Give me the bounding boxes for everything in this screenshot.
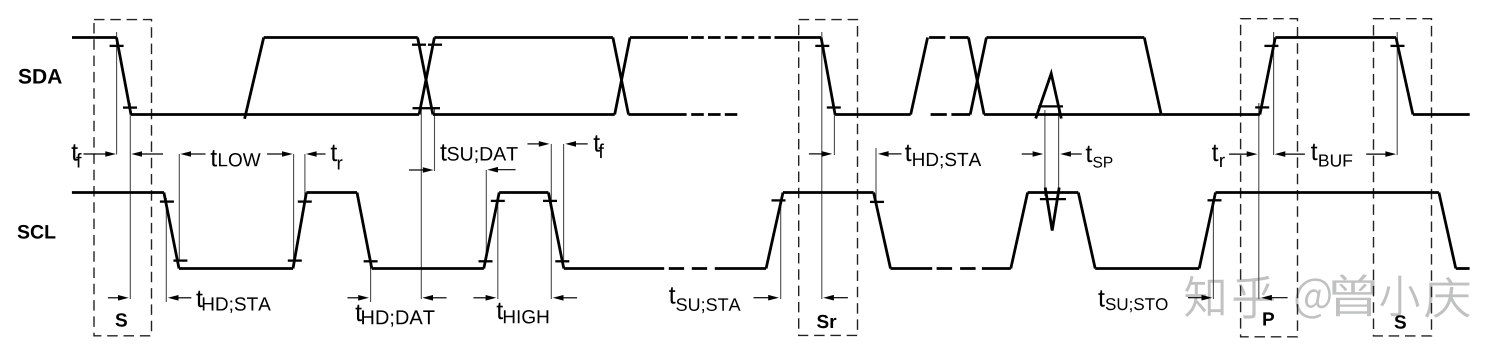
dimension tSU;DAT right arrow	[487, 167, 515, 173]
tick SCL rise1 top	[298, 200, 312, 202]
label tBUF	[1311, 144, 1352, 167]
tick SDA S2 fall top	[1391, 45, 1405, 47]
label S1	[116, 313, 127, 327]
dimension tHD;STA1 left arrow	[108, 295, 129, 301]
tick SDA Sr fall top	[815, 45, 829, 47]
label tHD;STA1	[196, 291, 270, 313]
dimension tf2 left arrow	[527, 141, 549, 147]
label tr1	[331, 145, 343, 170]
dimension tHIGH right arrow	[553, 295, 577, 301]
wire SCL low 4 resume	[982, 267, 1011, 270]
dimension tr2 arrow	[1229, 151, 1257, 157]
wire SDA low rail 2	[433, 113, 615, 116]
dimension tSU;DAT left arrow	[409, 167, 434, 173]
dimension tSP right arrow	[1060, 151, 1082, 157]
dimension tr1 arrow	[306, 151, 326, 157]
repeated start box Sr	[799, 20, 858, 336]
wire SCL high 1	[306, 191, 357, 194]
dimension tSU;STA right arrow	[823, 295, 848, 301]
dimension tHD;DAT left arrow	[348, 295, 369, 301]
label tf1	[72, 144, 82, 167]
dimension tLOW left arrow	[180, 151, 205, 157]
wire SCL fall 1	[164, 193, 179, 269]
tick SDA P rise bottom	[1255, 106, 1269, 108]
tick SDA spike	[1038, 105, 1063, 107]
wire SDA merge fall	[1144, 38, 1161, 115]
tick SCL fall2 bottom	[364, 260, 378, 262]
dimension tHD;STA2 left arrow	[809, 151, 832, 157]
wire SCL fall 3	[548, 193, 563, 269]
projection line tLOW right	[293, 154, 295, 261]
label S2	[1395, 315, 1406, 329]
wire SCL low 5	[1095, 267, 1199, 270]
label tLOW	[211, 150, 261, 166]
wire SDA high stub before crossover3	[966, 36, 969, 39]
label tSU;DAT	[440, 144, 517, 163]
wire SCL high 3	[783, 191, 874, 194]
wire SDA crossover2 rise	[615, 38, 630, 115]
wire SCL low 4 solid	[891, 267, 933, 270]
projection line tHD;DAT right	[420, 108, 422, 299]
tick SCL rise3 top	[772, 199, 786, 201]
watermark glyph at	[1296, 278, 1331, 318]
projection line tSU;STO left	[1212, 200, 1214, 299]
dimension tSU;STA left arrow	[754, 295, 779, 301]
tick SDA crossover1 bottom left	[413, 107, 427, 109]
wire SCL low 3 resume	[715, 267, 766, 270]
projection line tf1 left	[116, 32, 118, 155]
wire SCL low 3 dashes	[669, 267, 707, 270]
wire SCL low 1	[179, 267, 293, 270]
wire SCL high 4	[1028, 191, 1079, 194]
label tSP	[1086, 146, 1113, 168]
wire SDA low solid after crossover2	[629, 113, 687, 116]
wire SDA high rail 2	[434, 36, 613, 39]
projection line tr2 right / tBUF left	[1273, 32, 1275, 155]
label tf2	[594, 135, 604, 158]
dimension tHD;STA2 right arrow	[878, 151, 902, 157]
wire SCL low 3 solid	[564, 267, 664, 270]
wire SDA high P to S2	[1275, 36, 1396, 39]
projection line tHD;DAT left	[370, 261, 372, 302]
projection line tSU;DAT right	[485, 170, 487, 262]
projection line tr1 right	[304, 154, 306, 202]
tick SCL fall1 top	[160, 200, 174, 202]
watermark 知乎@曾小庆	[1185, 274, 1470, 318]
wire SDA low dashes after crossover2	[691, 113, 737, 116]
tick SCL fall4 top	[870, 201, 884, 203]
dimension tSP left arrow	[1022, 151, 1044, 157]
wire SCL rise 3	[766, 193, 783, 269]
wire SCL rise 4	[1011, 193, 1028, 269]
tick SCL fall3 bottom	[555, 260, 569, 262]
wire SDA P rise	[1260, 38, 1275, 115]
watermark glyph zhi	[1185, 276, 1224, 317]
tick SCL rise2 bottom	[479, 260, 493, 262]
wire SDA S2 fall	[1396, 38, 1413, 115]
projection line tSP right	[1058, 110, 1060, 196]
wire SDA low before P	[1161, 113, 1260, 116]
wire SDA rise 1	[245, 38, 264, 119]
wire SDA low stub before crossover3	[966, 113, 970, 116]
label tSU;STA	[669, 287, 741, 313]
tick SCL fall1 bottom	[173, 259, 187, 261]
spike on SDA	[1036, 74, 1062, 119]
wire SDA leading high	[72, 36, 117, 39]
wire SDA Sr fall	[821, 38, 835, 115]
wire SCL low 2	[372, 267, 484, 270]
projection line tSP left	[1044, 110, 1046, 196]
tick SDA crossover1 top right	[428, 44, 442, 46]
projection line tf2 right	[563, 144, 565, 262]
wire SDA high before Sr	[775, 36, 822, 39]
wire SCL high 5	[1216, 191, 1439, 194]
label SDA	[19, 69, 62, 84]
wire SCL fall 2	[357, 193, 372, 269]
label tSU;STO	[1098, 290, 1167, 312]
wire SCL leading high	[72, 191, 164, 194]
dimension tf1 right arrow	[131, 151, 163, 157]
watermark glyph zeng	[1332, 274, 1374, 316]
tick SDA start fall top	[110, 45, 124, 47]
wire SDA crossover3 rise	[970, 38, 986, 115]
projection line tSU;DAT left	[434, 108, 436, 171]
label tr2	[1212, 145, 1225, 167]
wire SDA crossover1 rise	[419, 38, 434, 115]
tick SCL rise5 top	[1208, 199, 1222, 201]
wire SDA trailing low	[1413, 113, 1470, 116]
wire SCL fall 6	[1439, 193, 1456, 269]
stop box P	[1241, 19, 1298, 337]
wire SCL rise 1	[293, 193, 306, 269]
wire SDA high rail 1	[264, 36, 418, 39]
projection line tf1 right / tHD;STA1 left	[129, 103, 131, 299]
label Sr	[817, 315, 836, 329]
projection line tHIGH left	[497, 201, 499, 299]
dimension tHIGH left arrow	[473, 295, 496, 301]
label P	[1263, 312, 1274, 325]
dimension tHD;DAT right arrow	[422, 295, 446, 301]
watermark glyph hu	[1234, 276, 1274, 319]
wire SDA low rail 1	[131, 113, 419, 116]
wire SCL fall 4	[874, 193, 891, 269]
wire SDA rise before crossover3	[911, 38, 928, 115]
wire SDA low dashes before crossover3	[931, 113, 966, 116]
wire SCL rise 2	[484, 193, 499, 269]
projection line tLOW left	[178, 154, 180, 261]
projection line tHD;STA2 right	[875, 148, 877, 202]
dimension tBUF left arrow	[1275, 151, 1305, 157]
wire SDA low after Sr	[835, 113, 911, 116]
wire SDA crossover2 fall	[613, 38, 629, 115]
dimension tSU;STO left arrow	[1188, 295, 1212, 301]
projection line tSU;STA left	[780, 200, 782, 299]
wire SDA high solid then dashed	[630, 36, 688, 39]
wire SCL rise 5	[1199, 193, 1215, 269]
projection line tBUF right	[1396, 32, 1398, 155]
start box S2	[1374, 19, 1432, 336]
tick SDA crossover1 bottom right	[426, 107, 440, 109]
watermark glyph xiao	[1380, 276, 1419, 317]
tick SCL fall3 top	[543, 200, 557, 202]
projection line tSU;STO right / tr2 left	[1258, 103, 1260, 299]
wire SCL low 4 dashes	[937, 267, 976, 270]
watermark glyph qing	[1425, 277, 1470, 318]
label tHIGH	[497, 303, 549, 324]
tick SDA start fall bottom	[123, 106, 137, 108]
dimension tf1 left arrow	[84, 151, 117, 157]
wire SDA high dashes	[691, 36, 771, 39]
wire SDA low rail 3	[984, 113, 1161, 116]
dimension tHD;STA1 right arrow	[168, 295, 192, 301]
tick SDA crossover1 top left	[412, 44, 426, 46]
dimension tBUF right arrow	[1366, 151, 1396, 157]
tick SCL rise1 bottom	[288, 259, 302, 261]
dimension tSU;STO right arrow	[1261, 295, 1287, 301]
tick SCL notch	[1040, 198, 1066, 200]
projection line tSU;STA right	[821, 32, 823, 299]
wire SDA crossover3 fall	[969, 38, 985, 115]
wire SDA high rail 3	[986, 36, 1144, 39]
tick SCL rise2 top	[491, 200, 505, 202]
wire SDA high dashes before crossover3	[929, 36, 966, 39]
projection line tf2 left / tHIGH right	[550, 144, 552, 299]
wire SCL trailing low	[1456, 267, 1470, 270]
start box S1	[94, 20, 152, 336]
wire SCL high 2	[499, 191, 548, 194]
label tHD;STA2	[905, 145, 981, 169]
wire SDA crossover1 fall	[418, 38, 433, 115]
wire SCL fall 5	[1078, 193, 1095, 269]
notch on SCL	[1045, 188, 1059, 231]
projection line tHD;STA1 right	[165, 198, 167, 302]
wire SDA start fall	[117, 38, 132, 115]
dimension tf2 right arrow	[565, 141, 587, 147]
label tHD;DAT	[356, 305, 435, 327]
projection line tHD;STA2 left	[833, 107, 835, 155]
label SCL	[18, 225, 56, 239]
tick SDA P rise top	[1264, 45, 1278, 47]
dimension tLOW right arrow	[267, 151, 293, 157]
tick SDA Sr fall bottom	[827, 106, 841, 108]
